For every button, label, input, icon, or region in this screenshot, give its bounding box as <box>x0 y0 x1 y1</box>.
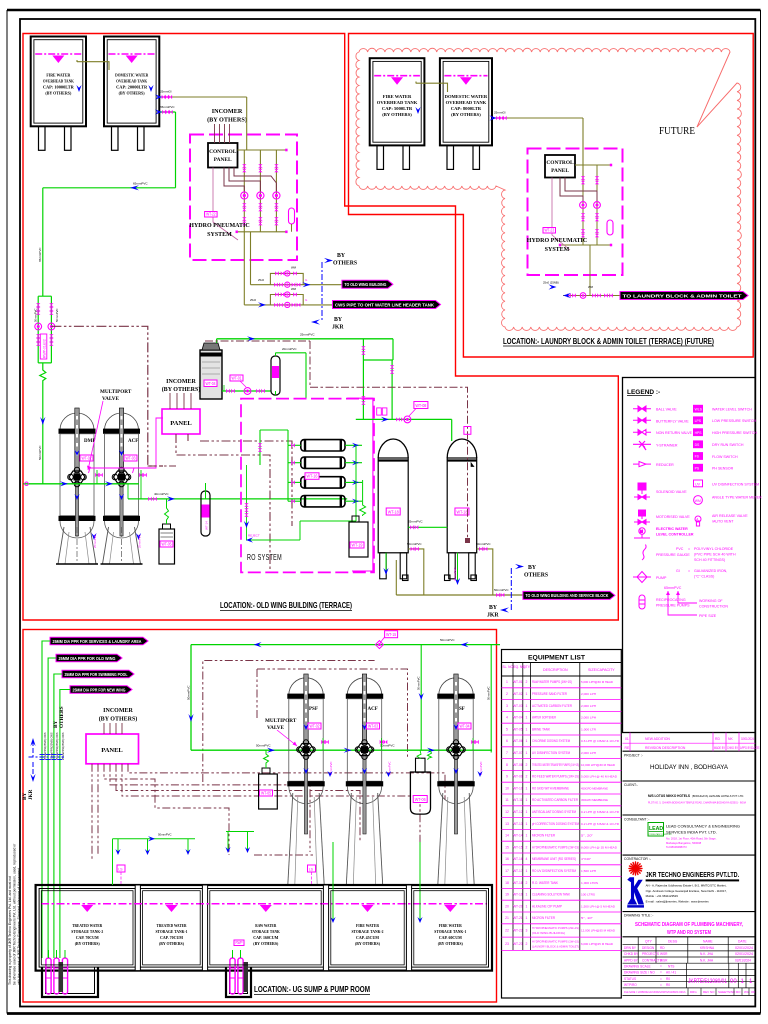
svg-text:WT-10: WT-10 <box>513 786 523 790</box>
svg-text:BRINE TANK: BRINE TANK <box>532 727 551 731</box>
svg-text:DESIGN: DESIGN <box>642 946 655 950</box>
svg-text:STORAGE TANK-2: STORAGE TANK-2 <box>352 929 384 934</box>
svg-text:R.O. WATER TANK: R.O. WATER TANK <box>532 881 559 885</box>
svg-text:CONSTRUCTION: CONSTRUCTION <box>699 605 728 609</box>
svg-text:1: 1 <box>526 704 528 708</box>
svg-text:RO UV DISINFECTION SYSTEM: RO UV DISINFECTION SYSTEM <box>532 869 576 873</box>
svg-text:WLS: WLS <box>695 407 703 411</box>
svg-text:SHEETS/NO: SHEETS/NO <box>718 990 736 994</box>
svg-text:1: 1 <box>526 751 528 755</box>
svg-text:(BODHGAYA) LEISURE HOTELS PVT.: (BODHGAYA) LEISURE HOTELS PVT. LTD. <box>692 794 744 798</box>
svg-text:1: 1 <box>526 869 528 873</box>
svg-text:LOW PRESSURE SWITCH: LOW PRESSURE SWITCH <box>712 419 757 423</box>
svg-text:=: = <box>688 547 690 551</box>
svg-text:4"X40": 4"X40" <box>581 857 591 861</box>
svg-text:DRN BY: DRN BY <box>624 946 637 950</box>
svg-text:65mmPVC: 65mmPVC <box>38 247 42 262</box>
svg-text:LOCATION:- LAUNDRY BLOCK & AD: LOCATION:- LAUNDRY BLOCK & ADMIN TOILET … <box>503 337 714 346</box>
svg-text:4: 4 <box>526 857 528 861</box>
svg-text:WSR: WSR <box>660 958 668 962</box>
svg-text:DRAWING SIZE / NO: DRAWING SIZE / NO <box>624 971 655 975</box>
svg-text:5", 10": 5", 10" <box>581 916 593 920</box>
svg-text:WT-18: WT-18 <box>513 881 523 885</box>
svg-text:RAW WATER PUMPS (1W+1S): RAW WATER PUMPS (1W+1S) <box>532 680 572 684</box>
svg-text:PIPE SIZE: PIPE SIZE <box>699 614 717 618</box>
svg-text:PH SENSOR: PH SENSOR <box>712 467 734 471</box>
svg-text:WT-22: WT-22 <box>513 929 523 933</box>
svg-text:2: 2 <box>526 763 528 767</box>
svg-text:CONTRACTS: CONTRACTS <box>642 958 662 962</box>
svg-text:SF: SF <box>459 707 465 712</box>
svg-text:WT-06: WT-06 <box>415 797 426 802</box>
svg-text:PSF: PSF <box>309 707 318 712</box>
svg-text:CAP: 8000LTR: CAP: 8000LTR <box>451 106 482 111</box>
svg-text:WT-13: WT-13 <box>513 822 523 826</box>
svg-text:AIR RELEASE VALVE: AIR RELEASE VALVE <box>712 514 748 518</box>
svg-text:WT-16: WT-16 <box>307 474 318 479</box>
svg-text:25mmPPR(25NB) CWS: 25mmPPR(25NB) CWS <box>43 732 47 760</box>
svg-text:15: 15 <box>505 845 509 849</box>
svg-text:M/S LOTUS NIKKO HOTELS: M/S LOTUS NIKKO HOTELS <box>648 793 690 798</box>
svg-text:be otherwise used of JKR Techn: be otherwise used of JKR Techno Engineer… <box>13 843 17 985</box>
svg-text:3: 3 <box>526 929 528 933</box>
svg-text:LOCATION:- OLD WING BUILDING (: LOCATION:- OLD WING BUILDING (TERRACE) <box>220 600 352 610</box>
svg-text:WT-23: WT-23 <box>513 942 523 946</box>
svg-text:WT-03: WT-03 <box>513 704 523 708</box>
svg-text:PRESSURE PUMPS: PRESSURE PUMPS <box>656 604 690 608</box>
svg-text:25mmPPR(25NB) CWS: 25mmPPR(25NB) CWS <box>61 732 65 760</box>
svg-text:CAP: 10000LTR: CAP: 10000LTR <box>43 85 75 90</box>
svg-text:CHLORINE DOSING SYSTEM: CHLORINE DOSING SYSTEM <box>532 739 570 743</box>
svg-text:TO OLD WING BUILDING AND SERVI: TO OLD WING BUILDING AND SERVICE BLOCK <box>525 593 609 598</box>
svg-text:4: 4 <box>506 716 508 720</box>
svg-text:GI: GI <box>676 569 680 573</box>
svg-text:WT-01: WT-01 <box>232 375 242 380</box>
svg-text:CHKD BY: CHKD BY <box>727 746 739 750</box>
svg-text:WT-09: WT-09 <box>513 775 523 779</box>
svg-text:No. 2018, 1st Floor, 40th Road: No. 2018, 1st Floor, 40th Road, 5th Stag… <box>666 837 717 841</box>
svg-text:WT-05: WT-05 <box>162 541 172 546</box>
svg-text:DATE: DATE <box>738 940 747 944</box>
svg-text:INCOMER: INCOMER <box>166 379 196 385</box>
svg-text:2: 2 <box>526 881 528 885</box>
svg-text:25mmGI: 25mmGI <box>494 111 506 115</box>
svg-text:JKRTE/512080/01: JKRTE/512080/01 <box>688 979 728 985</box>
svg-text:WT-15: WT-15 <box>386 632 396 637</box>
svg-text:HPS: HPS <box>695 431 703 435</box>
svg-text:OVERHEAD TANK: OVERHEAD TANK <box>43 79 75 84</box>
svg-text:0-6 LPH @ 4 BAR & 10 LTR: 0-6 LPH @ 4 BAR & 10 LTR <box>581 739 620 743</box>
svg-text:APPD BY: APPD BY <box>740 746 752 750</box>
svg-text:DOMESTIC WATER: DOMESTIC WATER <box>445 94 488 99</box>
svg-text:25mmPVC: 25mmPVC <box>408 520 423 524</box>
svg-text:MEMBRANE UNIT (RO SERIES): MEMBRANE UNIT (RO SERIES) <box>532 857 576 861</box>
svg-text:RWP-01&02: RWP-01&02 <box>43 339 47 358</box>
svg-text:AN - A, Rajendra Uddhavrao Est: AN - A, Rajendra Uddhavrao Estate-I, B-2… <box>646 884 727 888</box>
svg-text:10: 10 <box>505 786 509 790</box>
svg-text:LOCATION:- UG SUMP & PUMP ROOM: LOCATION:- UG SUMP & PUMP ROOM <box>254 984 370 994</box>
svg-text:1,500 LPH: 1,500 LPH <box>581 869 596 873</box>
svg-text:CLIENT:-: CLIENT:- <box>624 783 638 787</box>
svg-text:0-2 LPH @ 6 BAR & 10 LTR: 0-2 LPH @ 6 BAR & 10 LTR <box>581 822 620 826</box>
svg-text:02/01/2024: 02/01/2024 <box>735 958 751 962</box>
svg-text:RD: RD <box>715 737 720 741</box>
svg-text:PRESSURE GAUGE: PRESSURE GAUGE <box>656 553 690 557</box>
svg-text:WT-05: WT-05 <box>513 727 523 731</box>
svg-text:(LAUNDRY BLOCK & ADMIN TOILET): (LAUNDRY BLOCK & ADMIN TOILET) <box>532 945 579 949</box>
svg-text:25mmPPR(25NB) CWS: 25mmPPR(25NB) CWS <box>55 732 59 760</box>
svg-text:25mmGI: 25mmGI <box>160 90 172 94</box>
svg-text:2,000 LPH: 2,000 LPH <box>581 692 596 696</box>
svg-text:BALL VALVE: BALL VALVE <box>656 408 677 412</box>
svg-text:2,000 LPH: 2,000 LPH <box>581 716 596 720</box>
svg-text:MULTIPORT: MULTIPORT <box>100 389 132 395</box>
svg-text:00: 00 <box>730 979 737 985</box>
svg-text:TREATED WATER: TREATED WATER <box>72 923 103 928</box>
svg-text:1: 1 <box>526 798 528 802</box>
svg-text:VALVE: VALVE <box>102 396 120 402</box>
svg-text:0-2 LPH @ 6 BAR & 10 LTR: 0-2 LPH @ 6 BAR & 10 LTR <box>581 810 620 814</box>
svg-text:SIZE/CAPACITY: SIZE/CAPACITY <box>588 668 615 672</box>
svg-text:WT-17: WT-17 <box>513 869 523 873</box>
svg-text:5", 20": 5", 20" <box>581 834 593 838</box>
svg-text:25x0: 25x0 <box>258 278 265 282</box>
svg-text:50mmPVC: 50mmPVC <box>476 542 491 546</box>
svg-text:SL. NO.: SL. NO. <box>503 665 514 669</box>
svg-text:450GPD MEMBRANE: 450GPD MEMBRANE <box>581 798 608 802</box>
svg-text:TREATED WATER: TREATED WATER <box>157 923 188 928</box>
svg-text:WT-02: WT-02 <box>513 692 523 696</box>
svg-text:WT-19: WT-19 <box>352 542 363 547</box>
svg-text:Mobile : +91 9811123529: Mobile : +91 9811123529 <box>646 894 679 898</box>
svg-text:WT-19: WT-19 <box>513 893 523 897</box>
svg-text:13: 13 <box>505 822 509 826</box>
svg-text:17: 17 <box>505 869 509 873</box>
svg-text:PRESSURE SAND FILTER: PRESSURE SAND FILTER <box>532 692 568 696</box>
svg-text:(PVC PIPE SCH 40 WITH: (PVC PIPE SCH 40 WITH <box>694 553 736 557</box>
svg-text:WT-03: WT-03 <box>126 455 136 460</box>
svg-text:PROJECT :-: PROJECT :- <box>624 754 643 758</box>
svg-text:450GPD MEMBRANE: 450GPD MEMBRANE <box>581 786 608 790</box>
svg-text:14: 14 <box>505 834 509 838</box>
svg-text:25MM DIA PPR FOR SERVICES & LA: 25MM DIA PPR FOR SERVICES & LAUNDRY AREA <box>53 639 143 644</box>
svg-text:NTS: NTS <box>668 965 674 969</box>
svg-text:WT-18: WT-18 <box>456 509 467 514</box>
svg-text:JKR TECHNO ENGINEERS PVT.LTD.: JKR TECHNO ENGINEERS PVT.LTD. <box>646 870 740 879</box>
svg-text:SYSTEM: SYSTEM <box>545 247 570 253</box>
svg-text:02/01/2024: 02/01/2024 <box>741 737 754 741</box>
svg-text:RWP: RWP <box>236 940 243 945</box>
svg-text:MADE BY: MADE BY <box>714 746 726 750</box>
svg-text:(BY OTHERS): (BY OTHERS) <box>99 716 138 723</box>
svg-text:100 LTRS: 100 LTRS <box>581 893 595 897</box>
svg-text:25mmPVC: 25mmPVC <box>300 333 315 337</box>
svg-text:50mmPVC: 50mmPVC <box>187 685 191 700</box>
svg-text:2,000 LPH: 2,000 LPH <box>581 751 596 755</box>
svg-text:SYSTEM: SYSTEM <box>207 232 232 238</box>
svg-text:UV DISINFECTION SYSTEM: UV DISINFECTION SYSTEM <box>532 751 570 755</box>
svg-text:QTY.: QTY. <box>523 665 530 669</box>
svg-text:9: 9 <box>506 775 508 779</box>
svg-text:25x0: 25x0 <box>250 298 257 302</box>
svg-text:WT-22: WT-22 <box>206 211 216 216</box>
svg-text:RO SKID WITH MEMBRANE: RO SKID WITH MEMBRANE <box>532 786 570 790</box>
svg-text:N.K. JHA: N.K. JHA <box>700 952 714 956</box>
svg-text:BUTTERFLY VALVE: BUTTERFLY VALVE <box>656 419 689 423</box>
svg-text:1: 1 <box>526 834 528 838</box>
svg-text:MICRON FILTER: MICRON FILTER <box>532 916 556 920</box>
svg-text:INCOMER: INCOMER <box>103 708 133 714</box>
svg-text:25x0 (25NB): 25x0 (25NB) <box>543 281 559 285</box>
svg-text:DOMESTIC WATER: DOMESTIC WATER <box>115 73 149 78</box>
svg-text:(BY OTHERS): (BY OTHERS) <box>253 941 279 946</box>
svg-text:CLEANING SOLUTION TANK: CLEANING SOLUTION TANK <box>532 893 571 897</box>
svg-text:FUTURE: FUTURE <box>659 126 695 137</box>
svg-text:STORAGE TANK-2: STORAGE TANK-2 <box>71 929 103 934</box>
svg-text:1: 1 <box>526 727 528 731</box>
svg-text:5,000 LPH @ 40 M HEAD: 5,000 LPH @ 40 M HEAD <box>581 775 618 779</box>
svg-text:SCH 40 FITTINGS): SCH 40 FITTINGS) <box>694 558 725 562</box>
svg-text:Tel:08048488373: Tel:08048488373 <box>666 845 687 849</box>
svg-text:65mmPVC: 65mmPVC <box>133 182 148 186</box>
svg-text:(BY OTHERS): (BY OTHERS) <box>162 386 201 393</box>
svg-text:(BY OTHERS): (BY OTHERS) <box>119 91 146 96</box>
svg-text:HOLIDAY INN , BODHGAYA: HOLIDAY INN , BODHGAYA <box>650 764 729 771</box>
svg-text:=: = <box>688 569 690 573</box>
svg-text:1: 1 <box>526 786 528 790</box>
svg-text:5,000 LPH@30 M HEAD: 5,000 LPH@30 M HEAD <box>581 680 614 684</box>
svg-text:STORAGE TANK-1: STORAGE TANK-1 <box>434 929 466 934</box>
svg-text:WT-05: WT-05 <box>261 790 271 795</box>
svg-text:DESCRIPTION: DESCRIPTION <box>543 668 568 672</box>
svg-text:REVISION DESCRIPTION: REVISION DESCRIPTION <box>645 746 686 750</box>
svg-text:N.K. JHA: N.K. JHA <box>700 958 714 962</box>
svg-text:STORAGE TANK-1: STORAGE TANK-1 <box>156 929 188 934</box>
svg-text:PVC: PVC <box>676 547 684 551</box>
svg-text:POLYVINYL CHLORIDE: POLYVINYL CHLORIDE <box>694 547 734 551</box>
svg-text:LEAD CONSULTANCY & ENGINEERING: LEAD CONSULTANCY & ENGINEERING <box>666 824 740 829</box>
svg-text:WT-04: WT-04 <box>460 723 470 728</box>
svg-text:FIRE WATER: FIRE WATER <box>439 923 463 928</box>
svg-text:DRY RUN SWITCH: DRY RUN SWITCH <box>712 443 744 447</box>
svg-text:PLOT NO. 5, CHAKRA BODHGAYA TE: PLOT NO. 5, CHAKRA BODHGAYA TEMPLE ROAD,… <box>648 801 746 805</box>
svg-text:18: 18 <box>505 881 509 885</box>
svg-text:WT-08: WT-08 <box>415 403 426 408</box>
svg-text:(OLD WING BUILDING): (OLD WING BUILDING) <box>532 931 565 935</box>
svg-text:This drawing is property of JK: This drawing is property of JKR Techno E… <box>8 876 12 985</box>
svg-text:E-mail : sales@jkrseries, Webs: E-mail : sales@jkrseries, Website : www.… <box>646 899 710 903</box>
svg-text:RECIPROCATING: RECIPROCATING <box>656 598 686 602</box>
svg-text:50mmPVC: 50mmPVC <box>417 676 421 690</box>
svg-text:ANTISCALANT DOSING SYSTEM: ANTISCALANT DOSING SYSTEM <box>532 810 576 814</box>
svg-text:ACTIVATED CARBON FILTER: ACTIVATED CARBON FILTER <box>532 704 573 708</box>
svg-text:(BY OTHERS): (BY OTHERS) <box>159 941 185 946</box>
svg-text:25mmPPR(25NB) CWS: 25mmPPR(25NB) CWS <box>49 732 53 760</box>
svg-text:8,000 LPH @ 35 M HEAD: 8,000 LPH @ 35 M HEAD <box>581 845 618 849</box>
svg-text:ACF: ACF <box>128 439 138 444</box>
svg-text:R0: R0 <box>666 983 670 987</box>
svg-text:65mmPVC: 65mmPVC <box>664 586 682 590</box>
svg-text:23: 23 <box>505 942 509 946</box>
svg-text:OVERHEAD TANK: OVERHEAD TANK <box>446 100 487 105</box>
svg-text:50mmPVC: 50mmPVC <box>256 744 271 748</box>
svg-text:EQUIPMENT LIST: EQUIPMENT LIST <box>528 655 586 662</box>
svg-text:1: 1 <box>506 680 508 684</box>
svg-text:DRAWING TITLE :-: DRAWING TITLE :- <box>624 914 653 918</box>
svg-text:WATER SOFTENER: WATER SOFTENER <box>532 716 556 720</box>
svg-text:WT-04: WT-04 <box>206 381 216 386</box>
svg-text:WTP AND RO SYSTEM: WTP AND RO SYSTEM <box>667 930 711 936</box>
svg-text:50mmPVC: 50mmPVC <box>407 542 422 546</box>
svg-text:SCHEMATIC DIAGRAM OF PLUMBI: SCHEMATIC DIAGRAM OF PLUMBING MACHINERY, <box>635 922 744 928</box>
svg-text:PANEL: PANEL <box>101 747 123 754</box>
svg-text:21: 21 <box>505 916 509 920</box>
svg-text:2,000 LPH: 2,000 LPH <box>581 704 596 708</box>
svg-text:(BY OTHERS): (BY OTHERS) <box>355 941 381 946</box>
svg-text:ANGLE TYPE WATER METER: ANGLE TYPE WATER METER <box>712 496 762 500</box>
svg-text:(BY OTHERS): (BY OTHERS) <box>382 112 412 117</box>
svg-text:(BY OTHERS): (BY OTHERS) <box>451 112 481 117</box>
svg-text:DESG: DESG <box>668 940 678 944</box>
svg-text:ALKALINE CIP PUMP: ALKALINE CIP PUMP <box>532 904 563 908</box>
svg-text:MICRON FILTER: MICRON FILTER <box>532 834 556 838</box>
svg-text:REV NO: REV NO <box>703 990 715 994</box>
svg-text:WT-03: WT-03 <box>368 723 378 728</box>
svg-text:OF: OF <box>751 990 755 994</box>
svg-text:HYDROPNEUMATIC PUMPS (1W+1S): HYDROPNEUMATIC PUMPS (1W+1S) <box>532 845 579 849</box>
svg-text:Opp. Andrews College Geetanjal: Opp. Andrews College Geetanjali Enclave,… <box>646 889 727 893</box>
svg-text:M: M <box>640 530 643 534</box>
svg-text:WM: WM <box>588 285 594 289</box>
svg-text:HYDROPNEUMATIC PUMPS (1W+1S): HYDROPNEUMATIC PUMPS (1W+1S) <box>532 939 579 943</box>
svg-text:NEW ADDITION: NEW ADDITION <box>645 737 670 741</box>
svg-text:LEVEL CONTROLLER: LEVEL CONTROLLER <box>656 533 694 537</box>
svg-text:25mmPVC: 25mmPVC <box>138 534 142 548</box>
svg-text:PANEL: PANEL <box>214 157 232 163</box>
svg-text:WT-01: WT-01 <box>513 680 523 684</box>
svg-text:WM: WM <box>291 287 297 291</box>
svg-text:WT-08: WT-08 <box>513 763 523 767</box>
svg-text:10,000 LPH@30 M HEAD: 10,000 LPH@30 M HEAD <box>581 763 616 767</box>
svg-text:FIRE WATER: FIRE WATER <box>46 73 71 78</box>
svg-text:25MM DIA PPR FOR OLD WING: 25MM DIA PPR FOR OLD WING <box>59 656 116 661</box>
svg-text:DRG: DRG <box>690 990 697 994</box>
svg-text:40mmPVC: 40mmPVC <box>154 492 169 496</box>
svg-text:50mmPVC: 50mmPVC <box>494 588 509 592</box>
svg-text:02/01/2024: 02/01/2024 <box>735 946 753 950</box>
svg-text:WT-07: WT-07 <box>513 751 523 755</box>
svg-text:65mmPVC: 65mmPVC <box>160 105 175 109</box>
svg-text:16: 16 <box>505 857 509 861</box>
svg-text:FS: FS <box>695 455 700 459</box>
svg-text:8: 8 <box>506 763 508 767</box>
svg-text:CAP. 60CUM: CAP. 60CUM <box>439 935 462 940</box>
svg-text:STORAGE TANK: STORAGE TANK <box>252 929 281 934</box>
svg-text:6: 6 <box>506 739 508 743</box>
svg-text:12,000 LPH@35 M HEAD: 12,000 LPH@35 M HEAD <box>581 929 616 933</box>
svg-text:HIGH PRESSURE SWITCH: HIGH PRESSURE SWITCH <box>712 431 757 435</box>
svg-text:LEGEND :-: LEGEND :- <box>627 389 660 396</box>
svg-text:WM: WM <box>291 266 297 270</box>
svg-text:WT-12: WT-12 <box>513 810 523 814</box>
svg-text:1: 1 <box>526 739 528 743</box>
svg-text:HYDRO PNEUMATIC: HYDRO PNEUMATIC <box>189 223 249 229</box>
svg-text:FILE NAME = HIN/BODHGAYA/DRGS/: FILE NAME = HIN/BODHGAYA/DRGS/JKRTE/5120… <box>624 990 686 994</box>
svg-text:1: 1 <box>526 810 528 814</box>
svg-text:1,500 LPH @ 5 M HEAD: 1,500 LPH @ 5 M HEAD <box>581 904 616 908</box>
svg-text:CONTROL: CONTROL <box>546 160 574 166</box>
svg-text:50mmPVC: 50mmPVC <box>158 833 172 837</box>
svg-text:WT-11: WT-11 <box>513 798 523 802</box>
svg-text:1: 1 <box>526 904 528 908</box>
svg-text:TO OLD WING BUILDING: TO OLD WING BUILDING <box>344 282 386 287</box>
svg-text:WT-04: WT-04 <box>513 716 523 720</box>
svg-text:1,000 LTRS: 1,000 LTRS <box>581 881 598 885</box>
svg-text:25MM DIA PPR FOR NEW WING: 25MM DIA PPR FOR NEW WING <box>73 687 126 692</box>
svg-text:1: 1 <box>526 716 528 720</box>
svg-text:7: 7 <box>506 751 508 755</box>
svg-text:PROJECTS: PROJECTS <box>642 952 659 956</box>
svg-text:1: 1 <box>526 916 528 920</box>
svg-text:WORKING OF: WORKING OF <box>699 599 723 603</box>
svg-text:WT-14: WT-14 <box>205 521 209 530</box>
svg-text:WT-21: WT-21 <box>513 916 523 920</box>
svg-text:PUMP: PUMP <box>656 576 667 580</box>
svg-text:=: = <box>660 965 662 969</box>
svg-text:PANEL: PANEL <box>170 420 192 427</box>
svg-text:50mmPVC: 50mmPVC <box>55 308 59 322</box>
svg-text:25mmPVC: 25mmPVC <box>93 534 97 548</box>
svg-text:(BY OTHERS): (BY OTHERS) <box>45 91 72 96</box>
svg-text:6,000 LPH@25 M HEAD: 6,000 LPH@25 M HEAD <box>581 942 614 946</box>
svg-text:RE: RE <box>625 746 630 750</box>
svg-text:WSR: WSR <box>660 952 668 956</box>
svg-text:VALVE: VALVE <box>267 725 285 731</box>
svg-text:2: 2 <box>526 680 528 684</box>
svg-text:UV: UV <box>695 482 701 486</box>
svg-text:("C" CLASS): ("C" CLASS) <box>694 575 714 579</box>
svg-text:2: 2 <box>526 845 528 849</box>
svg-text:11: 11 <box>505 798 509 802</box>
svg-text:WT-16: WT-16 <box>513 857 523 861</box>
svg-text:REJECT: REJECT <box>248 534 260 538</box>
svg-text:3: 3 <box>506 704 508 708</box>
svg-text:WT-15: WT-15 <box>513 845 523 849</box>
svg-text:NON RETURN VALVE: NON RETURN VALVE <box>656 431 693 435</box>
svg-text:RD: RD <box>660 946 665 950</box>
svg-text:DS: DS <box>695 443 700 447</box>
svg-text:02/01/2024: 02/01/2024 <box>735 952 753 956</box>
svg-text:WT-23: WT-23 <box>545 227 555 232</box>
svg-text:ACF: ACF <box>368 707 378 712</box>
svg-text:FIRE WATER: FIRE WATER <box>356 923 380 928</box>
svg-text:RO: RO <box>736 990 741 994</box>
svg-text:RAW WATER: RAW WATER <box>255 923 277 928</box>
svg-text:CAP. 70CUM: CAP. 70CUM <box>76 935 99 940</box>
svg-text:GALVANIZED IRON,: GALVANIZED IRON, <box>694 569 727 573</box>
svg-text:OVERHEAD TANK: OVERHEAD TANK <box>116 79 148 84</box>
svg-text:01: 01 <box>625 737 629 741</box>
svg-text:CHKD BY: CHKD BY <box>624 952 639 956</box>
svg-text:STATUS: STATUS <box>624 977 636 981</box>
svg-text:=: = <box>660 977 662 981</box>
svg-text:2: 2 <box>506 692 508 696</box>
svg-text:1: 1 <box>526 822 528 826</box>
svg-text:Mahalaya Bangalore, 560008: Mahalaya Bangalore, 560008 <box>666 841 702 845</box>
svg-text:CONTROL: CONTROL <box>209 149 237 155</box>
svg-text:50mmPVC: 50mmPVC <box>34 308 38 322</box>
svg-text:KRISHNA: KRISHNA <box>700 946 715 950</box>
